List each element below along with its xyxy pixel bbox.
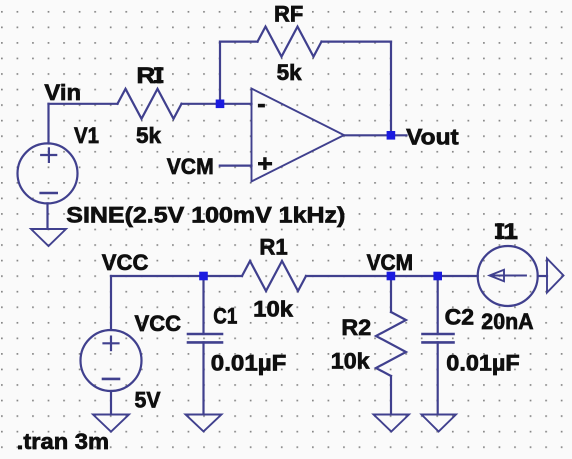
resistor RI bbox=[118, 89, 182, 119]
plus sign inside V1 bbox=[39, 147, 120, 379]
op-amp minus input symbol bbox=[258, 104, 265, 108]
resistor RF bbox=[258, 27, 322, 57]
wire rail R1 to VCM node bbox=[306, 275, 391, 277]
node C2 junction bbox=[433, 272, 442, 281]
svg-text:V1: V1 bbox=[74, 123, 99, 148]
wire R2 bottom stem bbox=[390, 376, 392, 414]
node VCM/R2 junction bbox=[387, 272, 396, 281]
wire Vin horizontal bbox=[49, 103, 118, 105]
capacitor C1 bottom plate bbox=[188, 341, 222, 344]
svg-text:I1: I1 bbox=[496, 219, 518, 244]
node Vout junction bbox=[387, 131, 396, 140]
minus sign inside VCC source bbox=[102, 378, 121, 381]
wire feedback top left bbox=[220, 40, 258, 42]
wire V1 bottom stem bbox=[46, 203, 48, 228]
svg-text:VCC: VCC bbox=[102, 250, 149, 275]
voltage source V1 circle bbox=[18, 143, 78, 203]
op-amp U1 triangle bbox=[252, 89, 345, 182]
svg-text:.tran 3m: .tran 3m bbox=[17, 429, 109, 454]
wire C1 bottom stem bbox=[202, 342, 204, 413]
ground under V1 bbox=[31, 229, 66, 246]
ground right of I1 bbox=[547, 259, 564, 293]
svg-text:5k: 5k bbox=[277, 60, 303, 85]
voltage source VCC circle bbox=[81, 330, 142, 391]
wire rail VCM node to C2 node bbox=[391, 275, 438, 277]
wire C2 top stem bbox=[437, 276, 439, 334]
svg-text:VCC: VCC bbox=[135, 311, 182, 336]
svg-text:C1: C1 bbox=[213, 304, 237, 329]
wire C1 top stem bbox=[202, 276, 204, 334]
node Vin/RI/op-amp junction bbox=[216, 100, 225, 109]
capacitor C2 top plate bbox=[423, 333, 454, 336]
svg-text:RF: RF bbox=[274, 2, 303, 27]
wire C2 bottom stem bbox=[437, 342, 439, 413]
ground under C1 bbox=[186, 415, 222, 432]
wire feedback right vertical bbox=[390, 42, 392, 136]
svg-text:VCM: VCM bbox=[167, 154, 214, 179]
svg-text:C2: C2 bbox=[445, 304, 474, 329]
current source I1 arrowhead bbox=[490, 270, 505, 281]
current source I1 arrow shaft bbox=[492, 275, 526, 277]
svg-text:VCM: VCM bbox=[367, 250, 414, 275]
wire VCC source bottom stem bbox=[110, 391, 112, 414]
svg-text:RI: RI bbox=[136, 63, 162, 88]
op-amp plus input symbol bbox=[258, 157, 272, 170]
svg-text:R1: R1 bbox=[259, 235, 287, 260]
ground under R2 bbox=[374, 415, 410, 432]
capacitor C2 bottom plate bbox=[423, 341, 454, 344]
wire I1 right stub bbox=[538, 275, 547, 277]
wire feedback left vertical bbox=[219, 42, 221, 104]
svg-text:SINE(2.5V 100mV 1kHz): SINE(2.5V 100mV 1kHz) bbox=[66, 202, 345, 227]
wire feedback top right bbox=[322, 40, 392, 42]
wire rail C2 node to I1 bbox=[438, 275, 478, 277]
svg-text:5V: 5V bbox=[135, 387, 161, 412]
wire VCM stub to plus input bbox=[220, 165, 252, 167]
svg-text:Vout: Vout bbox=[406, 124, 459, 149]
svg-text:R2: R2 bbox=[341, 315, 371, 340]
capacitor C1 top plate bbox=[188, 333, 222, 336]
svg-text:0.01µF: 0.01µF bbox=[446, 351, 519, 376]
wire RI to op-amp minus bbox=[182, 103, 252, 105]
svg-text:20nA: 20nA bbox=[481, 309, 533, 334]
wire VCC source top stem bbox=[110, 276, 112, 330]
resistor R2 bbox=[376, 312, 406, 376]
svg-text:0.01µF: 0.01µF bbox=[211, 351, 287, 376]
ground under VCC source bbox=[93, 415, 129, 432]
svg-text:Vin: Vin bbox=[44, 80, 81, 105]
wire R2 top stem bbox=[390, 276, 392, 312]
svg-text:10k: 10k bbox=[253, 296, 294, 321]
minus sign inside V1 bbox=[39, 192, 58, 195]
node VCC/C1 junction bbox=[199, 272, 208, 281]
label RI bbox=[154, 67, 164, 70]
label I1 bbox=[495, 223, 504, 226]
wire op-amp output bbox=[344, 134, 407, 136]
wire VCC rail left bbox=[111, 275, 242, 277]
current source I1 circle bbox=[478, 246, 538, 306]
resistor R1 bbox=[242, 261, 306, 291]
ground under C2 bbox=[422, 415, 457, 432]
plus sign inside VCC source bbox=[102, 342, 119, 344]
wire V1 top stem bbox=[47, 104, 49, 144]
svg-text:5k: 5k bbox=[136, 123, 162, 148]
svg-text:10k: 10k bbox=[331, 349, 371, 374]
